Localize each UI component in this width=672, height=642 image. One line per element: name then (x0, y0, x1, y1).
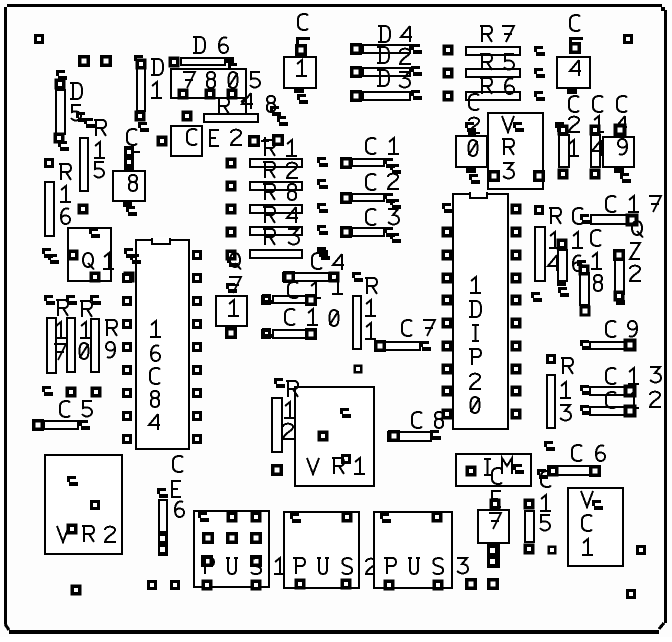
capacitor C1 (340, 138, 401, 174)
resistor R11 body (353, 296, 361, 349)
free pad (34, 34, 44, 44)
capacitor C2 (340, 174, 401, 209)
label Q2 (630, 221, 643, 281)
label 7805 (183, 72, 260, 88)
IC U1 16C84 body (136, 237, 189, 449)
capacitor CE6 (157, 456, 184, 556)
resistor R13 body (547, 375, 555, 428)
potentiometer VR3 (488, 113, 545, 189)
label C9 (606, 321, 637, 337)
label DIP20 (469, 277, 481, 413)
pad 7805 pin3 (227, 89, 238, 100)
free pad (354, 365, 363, 374)
pad (272, 134, 284, 146)
pad (66, 387, 77, 398)
pad 7805 pin2 (205, 89, 216, 100)
resistor R9 (90, 295, 117, 372)
capacitor C4 (283, 250, 344, 283)
label D6 (193, 37, 228, 53)
via marks (270, 106, 288, 126)
regulator U 7805 (171, 69, 246, 98)
capacitor C7 (374, 320, 435, 352)
free pad (71, 585, 82, 596)
capacitor C5 (32, 401, 92, 431)
board outline top edge (7, 4, 662, 7)
label R14 (217, 93, 253, 114)
capacitor C10 (261, 309, 339, 340)
pad R16 top (44, 158, 54, 168)
capacitor CE2 (157, 111, 203, 157)
label 8 (267, 96, 275, 112)
IC U2 left pads (442, 203, 454, 420)
label PUS2 (293, 558, 377, 574)
pad (248, 135, 260, 147)
potentiometer VR1 (295, 387, 374, 486)
label R11 (352, 272, 377, 339)
resistor R6 (466, 78, 545, 101)
capacitor C6 (537, 441, 605, 479)
transistor Q1 (68, 228, 112, 283)
transistor Q7 (216, 250, 247, 340)
resistor R17 (44, 295, 68, 373)
diode D1 (134, 55, 149, 132)
label R16 (59, 164, 71, 224)
capacitor C8 (388, 412, 443, 442)
label VR1 (307, 458, 365, 474)
free pad (100, 55, 112, 67)
resistor R10 (66, 295, 92, 372)
label C12 (606, 392, 661, 408)
board outline right edge (664, 10, 667, 623)
label R12 (274, 378, 298, 439)
IC U1 left pads (122, 248, 141, 444)
transistor Q2 body (613, 249, 625, 305)
IC U2 right pads (511, 204, 522, 420)
connector IM (456, 454, 531, 486)
board outline left edge (4, 7, 7, 624)
pad (91, 387, 102, 398)
capacitor C14 (590, 96, 605, 179)
label VR2 (57, 526, 116, 542)
free pad (548, 546, 557, 555)
diode D5 (54, 70, 70, 151)
mark (42, 386, 53, 396)
via pads (443, 45, 454, 102)
capacitor C12 body (580, 405, 637, 418)
switch PUS2 (284, 512, 359, 590)
capacitor C9 body (580, 339, 637, 352)
resistor R16 body (45, 182, 54, 236)
pad R16 bottom (42, 248, 80, 265)
resistor R14 body (531, 227, 545, 302)
capacitor C8 (113, 129, 145, 216)
diode D6 (169, 57, 240, 74)
resistor R14 body (204, 114, 258, 122)
capacitor C13 body (580, 385, 637, 398)
capacitor C15 body (524, 499, 535, 555)
label R15 (94, 120, 106, 177)
IC U1 right pads (192, 250, 202, 444)
resistor R8 (250, 184, 328, 213)
pad R12 bottom (271, 464, 283, 476)
board corner top-right (661, 7, 665, 11)
label D1 (151, 59, 163, 98)
resistor stack left pads (226, 158, 237, 238)
board outline bottom edge (9, 630, 659, 634)
label 16C84 (149, 321, 161, 430)
IC U2 DIP20 body (453, 191, 508, 429)
diode D2 (350, 47, 422, 78)
free pad (623, 34, 633, 44)
label D5 (70, 83, 82, 120)
pad (546, 354, 556, 364)
free pad (147, 580, 157, 590)
switch PUS3 (374, 512, 452, 591)
capacitor C16 body (557, 239, 570, 298)
pad (534, 205, 544, 215)
free pad (487, 578, 499, 590)
board corner bottom-left (5, 624, 9, 630)
resistor R3 (227, 229, 328, 267)
capacitor C1 top (284, 14, 316, 104)
label C15 (540, 471, 551, 530)
label VR3 (502, 116, 514, 178)
capacitor VC1 (568, 488, 623, 566)
polarity mark (261, 137, 269, 145)
resistor R2 (250, 162, 328, 190)
resistor R4 (250, 207, 328, 235)
pad R15 bottom (78, 204, 89, 215)
free pad (636, 545, 646, 555)
board corner bottom-right (659, 623, 664, 629)
free pad (465, 578, 477, 590)
pad near Q1 (124, 272, 135, 283)
resistor R1 (250, 140, 328, 167)
capacitor C3 (340, 209, 401, 243)
capacitor C21 (555, 96, 580, 179)
capacitor C20 (456, 94, 487, 184)
label R13 (560, 358, 573, 420)
capacitor CE7 (478, 468, 509, 568)
potentiometer VR2 (45, 455, 122, 554)
label C18 (591, 230, 602, 291)
label PUS3 (384, 558, 468, 574)
free pad (170, 580, 180, 590)
label CE2 (210, 130, 242, 146)
free pad (626, 589, 636, 599)
capacitor C17 body (580, 214, 639, 227)
resistor R5 (466, 54, 545, 78)
label PUS1 (202, 558, 285, 574)
label Q1 (83, 253, 114, 270)
resistor R15 body (80, 138, 88, 191)
switch PUS1 (194, 511, 269, 591)
label R14 (548, 208, 561, 271)
resistor R12 body (272, 398, 282, 452)
pad R15 top (76, 112, 95, 128)
free pad (78, 55, 90, 67)
capacitor C18 body (577, 260, 591, 317)
capacitor C19 (603, 96, 634, 183)
label C17 (606, 196, 661, 212)
pad 7805 pin1 (178, 89, 189, 100)
resistor R7 (466, 26, 545, 56)
label C13 (606, 367, 661, 384)
diode D3 (350, 70, 422, 102)
diode D4 (350, 26, 422, 55)
capacitor C11 (261, 278, 343, 306)
capacitor C4 top (557, 15, 590, 94)
label C16 (572, 208, 583, 271)
